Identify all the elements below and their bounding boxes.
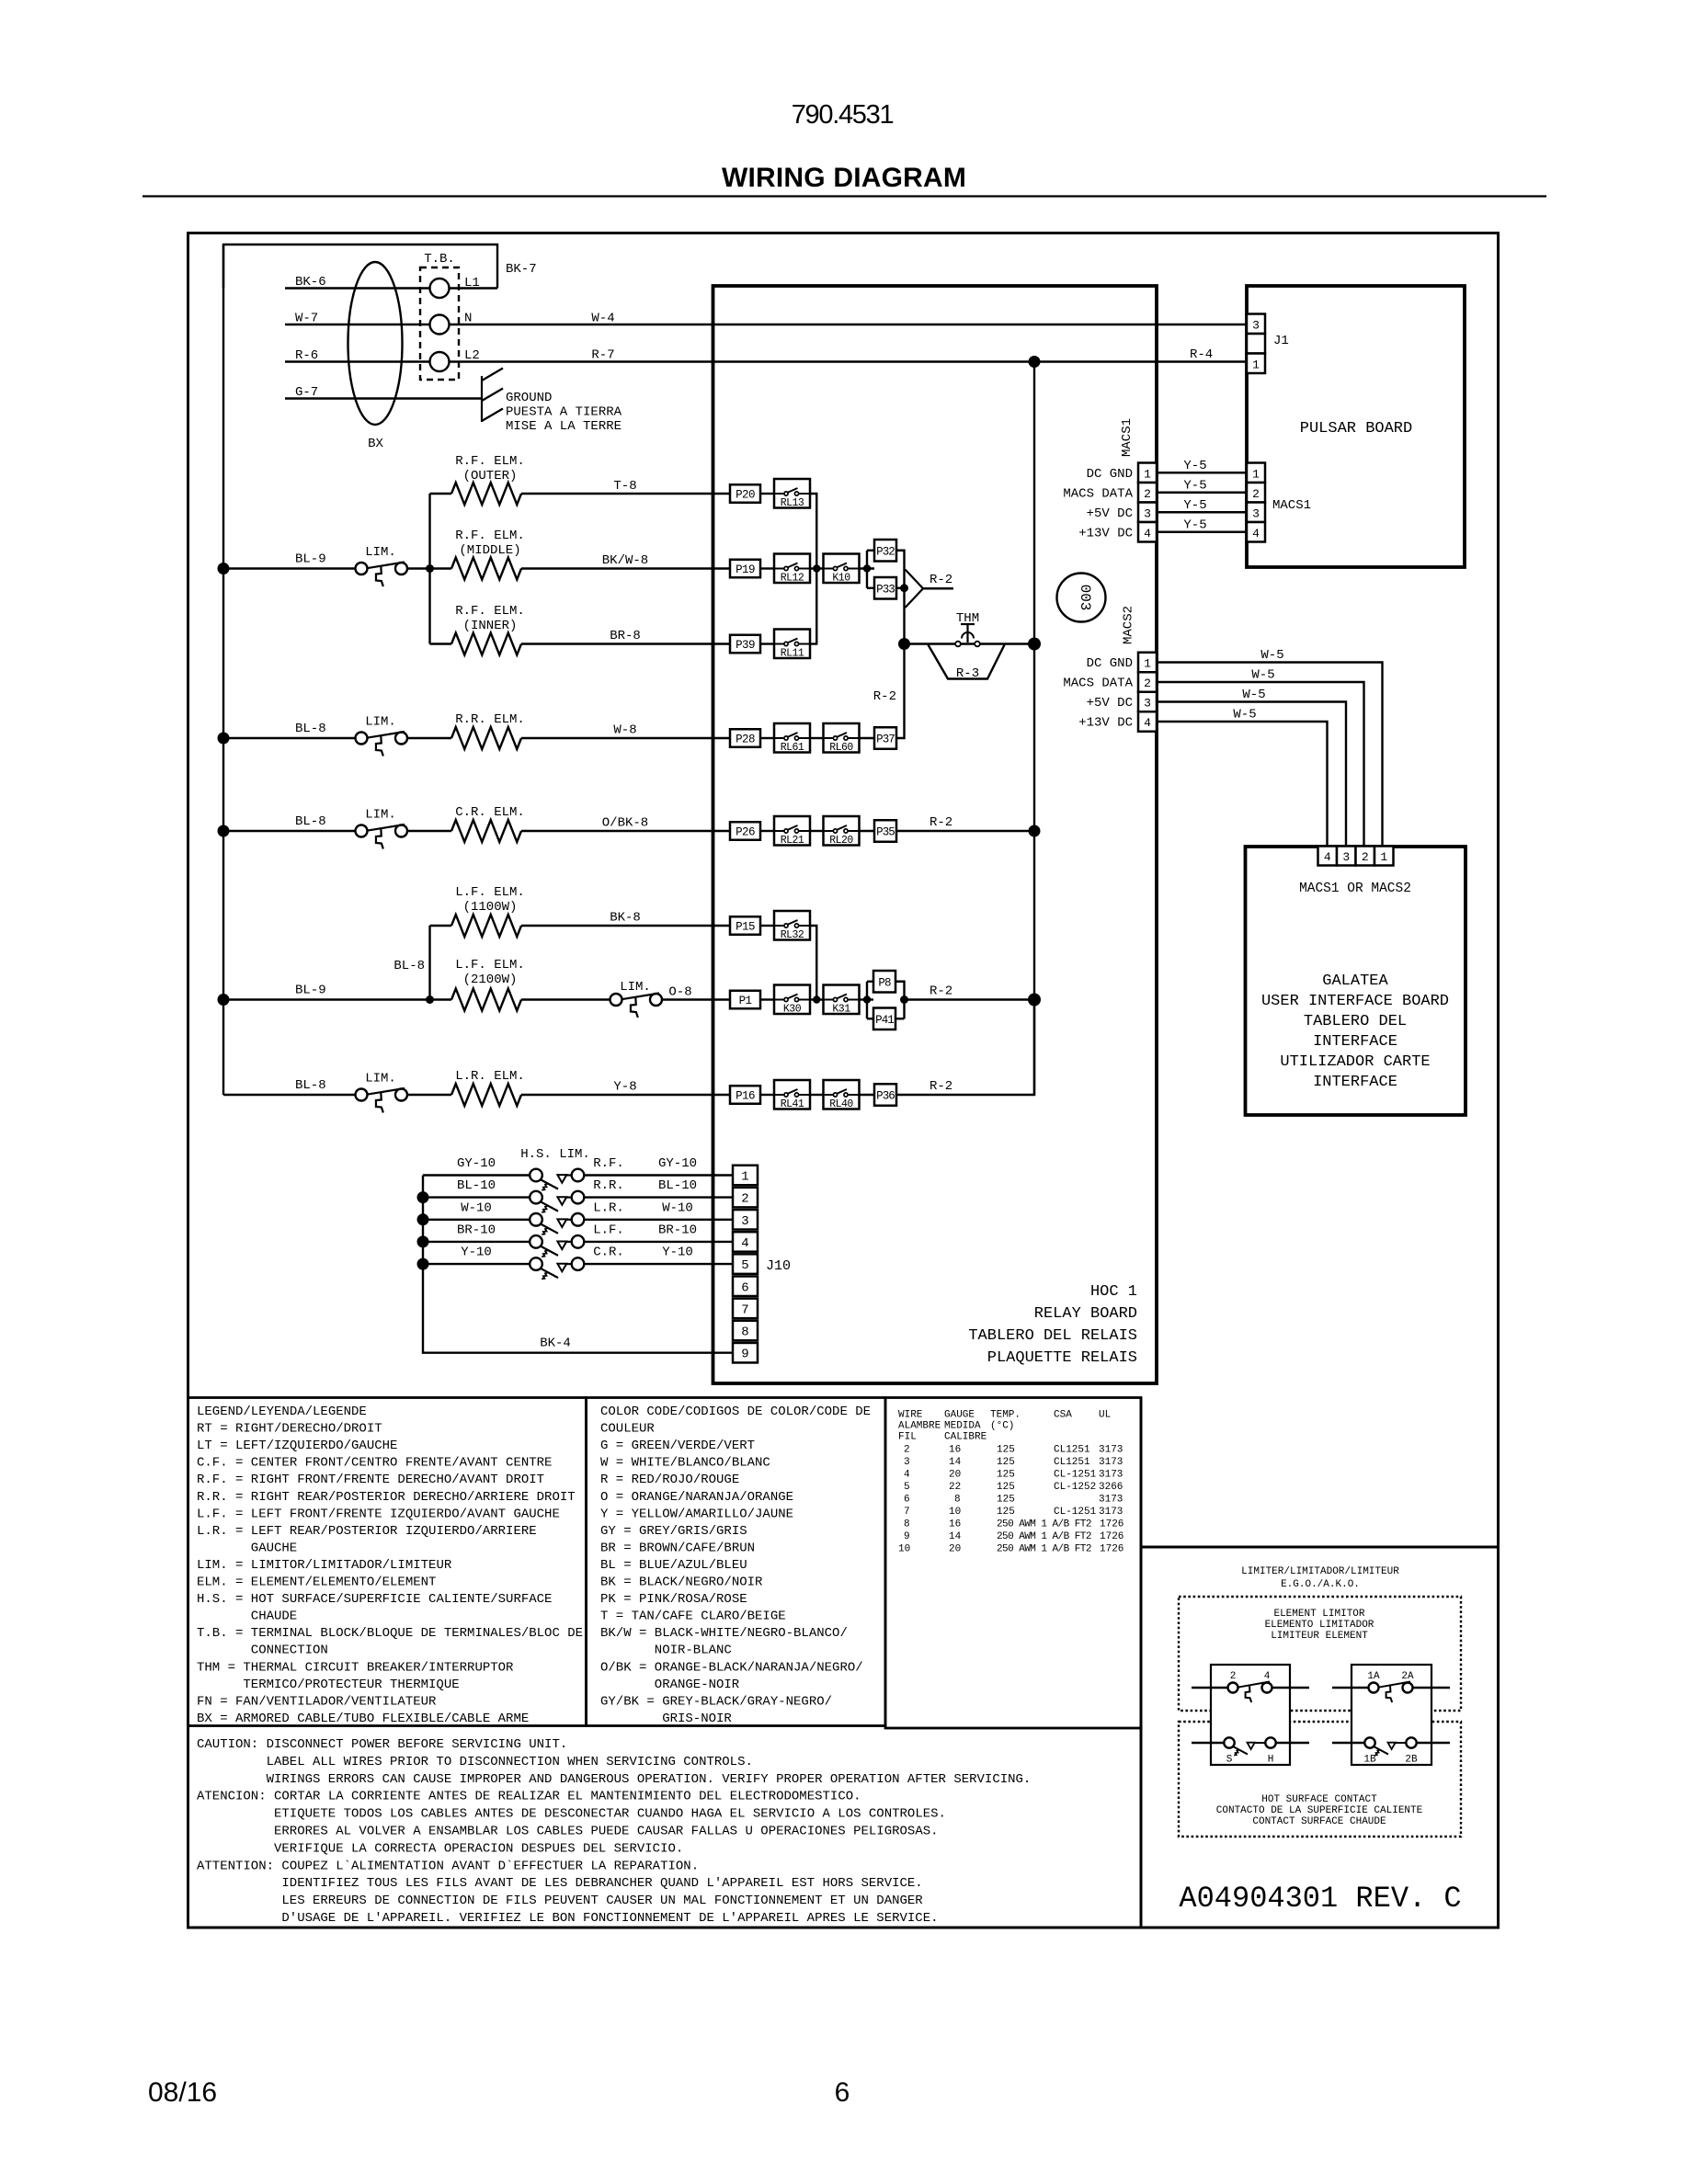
connector P32	[874, 540, 896, 562]
connector P16	[730, 1086, 760, 1104]
svg-text:1: 1	[1380, 850, 1387, 864]
svg-text:3173: 3173	[1099, 1470, 1123, 1481]
svg-text:UTILIZADOR CARTE: UTILIZADOR CARTE	[1280, 1053, 1430, 1071]
wire P19-RL12	[760, 567, 774, 569]
svg-text:LIMITEUR ELEMENT: LIMITEUR ELEMENT	[1271, 1631, 1368, 1642]
svg-text:R.R. = RIGHT REAR/POSTERIOR DE: R.R. = RIGHT REAR/POSTERIOR DERECHO/ARRI…	[197, 1490, 576, 1505]
wire LIM to resistor row4	[407, 737, 451, 739]
limiter switch row7	[610, 994, 622, 1006]
wire H.S. row 4 left	[423, 1241, 533, 1243]
connector P36	[874, 1084, 896, 1106]
wire BL-8 row4	[223, 737, 356, 739]
wire R-2 row8 to bus	[896, 1000, 1034, 1096]
svg-text:W-4: W-4	[591, 312, 614, 326]
junction dot P8/P41 join	[900, 995, 908, 1004]
wire P1-K30	[760, 998, 774, 1000]
svg-text:W-5: W-5	[1251, 668, 1274, 683]
svg-text:R.F. ELM.: R.F. ELM.	[455, 454, 525, 469]
svg-text:W-10: W-10	[461, 1200, 492, 1215]
svg-text:Y-10: Y-10	[461, 1246, 492, 1260]
terminal L2	[430, 352, 450, 371]
wire W-5 pin3	[1157, 702, 1346, 847]
relay board outline	[713, 286, 1158, 1383]
junction dot K30-K31	[813, 995, 820, 1003]
svg-text:TEMP.: TEMP.	[990, 1410, 1021, 1421]
junction dot H.S. row 5	[417, 1258, 429, 1270]
svg-text:3173: 3173	[1099, 1507, 1123, 1518]
wire P32 to vertical	[896, 551, 905, 644]
svg-text:BK/W-8: BK/W-8	[602, 553, 648, 568]
svg-text:125: 125	[997, 1445, 1015, 1456]
hot surface contact 1B-2B	[1332, 1742, 1365, 1744]
svg-text:CL1251: CL1251	[1054, 1445, 1090, 1456]
svg-text:1726: 1726	[1100, 1544, 1123, 1555]
svg-text:+13V DC: +13V DC	[1078, 716, 1133, 731]
wire RL21-RL20	[810, 830, 824, 832]
branch to P8/P41	[866, 982, 868, 1019]
svg-text:LEGEND/LEYENDA/LEGENDE: LEGEND/LEYENDA/LEGENDE	[197, 1405, 367, 1419]
wire R-2 row5	[896, 830, 1034, 832]
svg-text:CL-1251: CL-1251	[1054, 1507, 1097, 1518]
svg-text:T.B.: T.B.	[424, 252, 455, 267]
svg-text:125: 125	[997, 1495, 1015, 1506]
connector P20	[730, 484, 760, 503]
svg-text:BK-8: BK-8	[610, 911, 641, 926]
svg-text:TERMICO/PROTECTEUR THERMIQUE: TERMICO/PROTECTEUR THERMIQUE	[243, 1678, 459, 1692]
relay RL61	[774, 723, 810, 753]
svg-text:250 AWM 1 A/B FT2: 250 AWM 1 A/B FT2	[997, 1531, 1091, 1542]
svg-text:BX = ARMORED CABLE/TUBO FLEXIB: BX = ARMORED CABLE/TUBO FLEXIBLE/CABLE A…	[197, 1712, 529, 1726]
svg-text:LIM.: LIM.	[365, 808, 396, 823]
svg-text:1: 1	[741, 1170, 748, 1185]
wire O/BK-8	[521, 830, 730, 832]
connector P26	[730, 822, 760, 840]
resistor L.R. element	[451, 1084, 521, 1106]
wire L1 to BK-7 loop	[450, 287, 498, 289]
svg-text:GY/BK = GREY-BLACK/GRAY-NEGRO/: GY/BK = GREY-BLACK/GRAY-NEGRO/	[600, 1694, 832, 1709]
connector J1	[1247, 314, 1265, 335]
legend box	[188, 1398, 587, 1726]
element limitor contact 2-4	[1192, 1687, 1228, 1689]
svg-text:1726: 1726	[1100, 1519, 1123, 1530]
wire BL-9 row2	[223, 567, 356, 569]
svg-text:LABEL ALL WIRES PRIOR TO DISCO: LABEL ALL WIRES PRIOR TO DISCONNECTION W…	[267, 1755, 753, 1769]
svg-text:G = GREEN/VERDE/VERT: G = GREEN/VERDE/VERT	[600, 1439, 755, 1453]
H.S. left bus	[423, 1176, 733, 1353]
svg-text:IDENTIFIEZ TOUS LES FILS AVANT: IDENTIFIEZ TOUS LES FILS AVANT DE LES DE…	[281, 1876, 922, 1891]
svg-text:CONTACTO DE LA SUPERFICIE CALI: CONTACTO DE LA SUPERFICIE CALIENTE	[1216, 1805, 1423, 1816]
svg-text:+5V DC: +5V DC	[1087, 696, 1133, 711]
wire to LIM row7	[521, 998, 610, 1000]
svg-text:T-8: T-8	[613, 479, 636, 494]
svg-text:K31: K31	[832, 1004, 850, 1016]
H.S. limiter switch L.F.	[530, 1235, 542, 1248]
wire H.S. row 4 right	[585, 1241, 733, 1243]
svg-text:4: 4	[1324, 850, 1331, 864]
svg-text:RL60: RL60	[829, 742, 853, 754]
svg-text:4: 4	[1144, 716, 1151, 730]
svg-text:2: 2	[1144, 677, 1151, 690]
junction dot K10 branch	[863, 564, 871, 572]
svg-text:3: 3	[1252, 318, 1260, 332]
svg-text:20: 20	[949, 1470, 961, 1481]
svg-text:NOIR-BLANC: NOIR-BLANC	[655, 1644, 732, 1658]
main R-2 bus vertical	[1033, 362, 1035, 1096]
relay K31	[824, 985, 860, 1015]
galatea user interface board outline	[1246, 847, 1466, 1115]
svg-text:RL12: RL12	[781, 573, 804, 585]
svg-text:ELM. = ELEMENT/ELEMENTO/ELEMEN: ELM. = ELEMENT/ELEMENTO/ELEMENT	[197, 1575, 436, 1590]
junction dot THM right	[1028, 638, 1041, 651]
svg-text:LIMITER/LIMITADOR/LIMITEUR: LIMITER/LIMITADOR/LIMITEUR	[1241, 1566, 1399, 1577]
identifier circle 003	[1057, 574, 1106, 622]
svg-text:14: 14	[949, 1531, 962, 1542]
wire LIM to resistor row5	[407, 830, 451, 832]
wire Y-5 pin3	[1157, 511, 1247, 513]
svg-text:20: 20	[949, 1544, 961, 1555]
wire W-5 pin4	[1157, 722, 1328, 847]
svg-text:R-3: R-3	[956, 666, 979, 681]
outer border	[188, 233, 1499, 1928]
svg-text:W-5: W-5	[1260, 648, 1283, 663]
svg-text:GALATEA: GALATEA	[1322, 973, 1388, 990]
svg-text:ATENCION: CORTAR LA CORRIENTE: ATENCION: CORTAR LA CORRIENTE ANTES DE R…	[197, 1790, 861, 1804]
svg-text:(MIDDLE): (MIDDLE)	[459, 543, 520, 558]
wire BK-6 to terminal L1	[285, 287, 430, 289]
svg-text:TABLERO DEL RELAIS: TABLERO DEL RELAIS	[968, 1327, 1137, 1345]
limiter switch row8	[356, 1089, 368, 1101]
svg-text:Y-5: Y-5	[1183, 459, 1206, 473]
wire gauge box	[885, 1398, 1141, 1729]
wire Y-5 pin1	[1157, 472, 1247, 473]
svg-text:O/BK-8: O/BK-8	[602, 816, 648, 831]
svg-text:A04904301 REV. C: A04904301 REV. C	[1179, 1882, 1461, 1916]
svg-text:RELAY BOARD: RELAY BOARD	[1034, 1305, 1137, 1323]
wire P26-RL21	[760, 830, 774, 832]
svg-text:L.F. ELM.: L.F. ELM.	[455, 958, 525, 973]
svg-text:W = WHITE/BLANCO/BLANC: W = WHITE/BLANCO/BLANC	[600, 1456, 770, 1471]
svg-text:P26: P26	[736, 826, 755, 839]
svg-text:250 AWM 1 A/B FT2: 250 AWM 1 A/B FT2	[997, 1544, 1091, 1555]
connector P1	[730, 991, 760, 1009]
svg-text:7: 7	[904, 1507, 910, 1518]
svg-text:16: 16	[949, 1519, 961, 1530]
svg-text:L.F. ELM.: L.F. ELM.	[455, 885, 525, 900]
junction dot THM left	[898, 638, 910, 650]
connector P35	[874, 820, 896, 842]
wire BL-9 row7	[223, 998, 430, 1000]
svg-text:MACS1: MACS1	[1272, 498, 1311, 513]
wire W-8	[521, 737, 730, 739]
limiter switch row5	[356, 825, 368, 837]
svg-text:P8: P8	[878, 976, 891, 989]
wire P28-RL61	[760, 737, 774, 739]
wire H.S. row 1 right	[585, 1174, 733, 1176]
svg-text:3173: 3173	[1099, 1495, 1123, 1506]
color code box	[587, 1398, 886, 1726]
wire P37 up to THM	[896, 644, 905, 739]
wire LIM to node row2	[407, 567, 430, 569]
H.S. limiter switch R.R.	[530, 1191, 542, 1204]
junction dot bus row4	[218, 733, 230, 745]
svg-text:L.R. = LEFT REAR/POSTERIOR IZQ: L.R. = LEFT REAR/POSTERIOR IZQUIERDO/ARR…	[197, 1524, 537, 1539]
wire THM row	[905, 643, 1035, 644]
svg-text:BL-9: BL-9	[295, 984, 326, 998]
svg-text:C.F. = CENTER FRONT/CENTRO FRE: C.F. = CENTER FRONT/CENTRO FRENTE/AVANT …	[197, 1456, 552, 1471]
svg-text:3: 3	[1252, 506, 1260, 520]
junction dot LF node	[426, 995, 434, 1004]
svg-text:Y-8: Y-8	[613, 1080, 636, 1095]
svg-text:BR = BROWN/CAFE/BRUN: BR = BROWN/CAFE/BRUN	[600, 1541, 755, 1555]
svg-text:790.4531: 790.4531	[792, 100, 894, 130]
svg-text:125: 125	[997, 1457, 1015, 1468]
svg-text:MACS DATA: MACS DATA	[1063, 486, 1133, 501]
svg-text:BL = BLUE/AZUL/BLEU: BL = BLUE/AZUL/BLEU	[600, 1558, 747, 1573]
svg-text:CL-1251: CL-1251	[1054, 1470, 1097, 1481]
svg-text:ORANGE-NOIR: ORANGE-NOIR	[655, 1678, 740, 1692]
wire Y-8	[521, 1094, 730, 1096]
wire R-2 row7	[905, 998, 1035, 1000]
svg-text:GY = GREY/GRIS/GRIS: GY = GREY/GRIS/GRIS	[600, 1524, 747, 1539]
svg-text:Y-5: Y-5	[1183, 498, 1206, 513]
svg-text:FIL: FIL	[898, 1432, 917, 1443]
svg-text:1726: 1726	[1100, 1531, 1123, 1542]
resistor C.R. element	[451, 820, 521, 842]
svg-text:K10: K10	[832, 573, 850, 585]
svg-text:H: H	[1268, 1755, 1274, 1766]
svg-text:LIM.: LIM.	[365, 545, 396, 560]
terminal block T.B. dashed box	[420, 267, 459, 380]
svg-text:DC GND: DC GND	[1087, 656, 1133, 671]
wire RL20-P35	[859, 830, 874, 832]
H.S. limiter switch L.R.	[530, 1213, 542, 1226]
svg-text:(INNER): (INNER)	[463, 619, 518, 633]
wire H.S. row 5 right	[585, 1263, 733, 1265]
svg-text:BL-8: BL-8	[393, 959, 425, 973]
svg-text:1: 1	[1252, 358, 1260, 371]
wire BL-8 row8	[223, 1094, 356, 1096]
svg-text:CONTACT SURFACE CHAUDE: CONTACT SURFACE CHAUDE	[1252, 1816, 1386, 1827]
connector P39	[730, 635, 760, 654]
svg-text:(1100W): (1100W)	[463, 900, 518, 915]
svg-text:R.F. ELM.: R.F. ELM.	[455, 604, 525, 619]
svg-text:RL11: RL11	[781, 648, 804, 660]
svg-text:10: 10	[949, 1507, 961, 1518]
svg-text:CHAUDE: CHAUDE	[251, 1610, 297, 1624]
wire RL41-RL40	[810, 1094, 824, 1096]
svg-text:9: 9	[904, 1531, 910, 1542]
svg-text:DC GND: DC GND	[1087, 467, 1133, 482]
svg-text:4: 4	[1144, 527, 1151, 540]
wire R-2 row2	[923, 587, 953, 589]
wire W-5 pin1	[1157, 663, 1383, 847]
svg-text:P1: P1	[739, 995, 752, 1007]
svg-text:RL41: RL41	[781, 1098, 804, 1110]
svg-text:RL13: RL13	[781, 497, 804, 509]
svg-text:250 AWM 1 A/B FT2: 250 AWM 1 A/B FT2	[997, 1519, 1091, 1530]
title rule	[143, 195, 1546, 197]
svg-text:R.R.: R.R.	[593, 1178, 624, 1193]
svg-text:BL-8: BL-8	[295, 814, 326, 829]
H.S. limiter switch R.F.	[530, 1169, 542, 1182]
node vertical LF elements	[428, 926, 430, 1000]
svg-text:4: 4	[1264, 1671, 1271, 1682]
svg-text:+13V DC: +13V DC	[1078, 526, 1133, 540]
svg-text:BR-8: BR-8	[610, 629, 641, 643]
svg-text:GY-10: GY-10	[457, 1156, 496, 1171]
svg-text:3: 3	[904, 1457, 910, 1468]
svg-text:(°C): (°C)	[990, 1421, 1014, 1432]
svg-text:C.R.: C.R.	[593, 1246, 624, 1260]
wire H.S. row 1 left	[423, 1174, 533, 1176]
svg-text:P19: P19	[736, 563, 755, 576]
svg-text:3173: 3173	[1099, 1457, 1123, 1468]
svg-text:W-7: W-7	[295, 312, 318, 326]
svg-text:BK-6: BK-6	[295, 275, 326, 290]
limiter switch row4	[356, 733, 368, 745]
svg-text:BL-8: BL-8	[295, 722, 326, 736]
svg-text:R.F. = RIGHT FRONT/FRENTE DERE: R.F. = RIGHT FRONT/FRENTE DERECHO/AVANT …	[197, 1473, 544, 1487]
svg-text:2: 2	[1144, 487, 1151, 501]
svg-text:3: 3	[741, 1214, 748, 1229]
wire K30-K31	[810, 998, 824, 1000]
svg-text:BL-8: BL-8	[295, 1078, 326, 1093]
svg-text:LIM.: LIM.	[620, 980, 651, 995]
svg-text:L.F.: L.F.	[593, 1223, 624, 1237]
resistor L.F. 2100W element	[430, 998, 452, 1000]
connector MACS2 relay side	[1138, 653, 1157, 673]
wire H.S. row 3 left	[423, 1219, 533, 1221]
svg-text:Y-5: Y-5	[1183, 478, 1206, 493]
svg-text:Y-10: Y-10	[662, 1246, 693, 1260]
svg-text:R-2: R-2	[930, 815, 952, 830]
svg-text:W-5: W-5	[1242, 688, 1265, 702]
svg-text:ERRORES AL VOLVER A ENSAMBLAR: ERRORES AL VOLVER A ENSAMBLAR LOS CABLES…	[274, 1825, 939, 1839]
svg-text:WIRINGS ERRORS CAN CAUSE IMPRO: WIRINGS ERRORS CAN CAUSE IMPROPER AND DA…	[267, 1772, 1032, 1787]
limiter switch row2	[356, 563, 368, 574]
connector P37	[874, 727, 896, 749]
svg-text:COLOR CODE/CODIGOS DE COLOR/CO: COLOR CODE/CODIGOS DE COLOR/CODE DE	[600, 1405, 871, 1419]
svg-text:8: 8	[904, 1519, 910, 1530]
wire RL13 down to K10 node	[810, 494, 816, 569]
svg-text:6: 6	[904, 1495, 910, 1506]
hot surface contact S-H	[1192, 1742, 1225, 1744]
svg-text:P16: P16	[736, 1090, 755, 1103]
svg-text:GY-10: GY-10	[658, 1156, 697, 1171]
junction dot R-7 bus	[1029, 356, 1041, 368]
svg-text:BK = BLACK/NEGRO/NOIR: BK = BLACK/NEGRO/NOIR	[600, 1575, 763, 1590]
relay RL12	[774, 554, 810, 584]
svg-text:WIRE: WIRE	[898, 1410, 923, 1421]
svg-text:16: 16	[949, 1445, 961, 1456]
relay K10	[824, 554, 860, 584]
svg-text:LIM.: LIM.	[365, 715, 396, 730]
svg-text:D'USAGE DE L'APPAREIL. VERIFIE: D'USAGE DE L'APPAREIL. VERIFIEZ LE BON F…	[281, 1911, 938, 1926]
wire BR-8	[521, 643, 730, 644]
relay RL32	[774, 911, 810, 940]
svg-text:CL-1252: CL-1252	[1054, 1482, 1096, 1493]
svg-text:Y-5: Y-5	[1183, 518, 1206, 532]
svg-text:4: 4	[1252, 527, 1260, 540]
svg-text:R-2: R-2	[930, 1079, 952, 1094]
svg-text:P35: P35	[876, 826, 895, 839]
wire Y-5 pin4	[1157, 531, 1247, 533]
wire P33 to vertical	[896, 587, 905, 589]
connector P15	[730, 916, 760, 935]
wire R-6 / R-7 / R-4 line2	[285, 360, 1247, 362]
svg-text:P32: P32	[876, 545, 895, 558]
svg-text:22: 22	[949, 1482, 961, 1493]
svg-text:PLAQUETTE RELAIS: PLAQUETTE RELAIS	[987, 1349, 1137, 1367]
svg-text:R.F. ELM.: R.F. ELM.	[455, 529, 525, 543]
junction dot H.S. row 3	[417, 1213, 429, 1225]
svg-text:LIM.: LIM.	[365, 1072, 396, 1086]
relay RL40	[824, 1080, 860, 1109]
svg-text:O/BK = ORANGE-BLACK/NARANJA/NE: O/BK = ORANGE-BLACK/NARANJA/NEGRO/	[600, 1660, 863, 1675]
svg-text:L2: L2	[464, 348, 480, 363]
resistor R.F. middle element	[430, 567, 452, 569]
resistor R.F. outer element	[430, 493, 452, 495]
svg-text:125: 125	[997, 1507, 1015, 1518]
svg-text:R-2: R-2	[930, 573, 952, 587]
svg-text:2A: 2A	[1401, 1671, 1414, 1682]
connector P28	[730, 729, 760, 747]
thermal breaker THM symbol	[961, 623, 975, 625]
svg-text:P33: P33	[876, 583, 895, 596]
svg-text:R-7: R-7	[591, 348, 614, 363]
connector MACS1 relay side	[1138, 463, 1157, 483]
svg-text:W-10: W-10	[662, 1200, 693, 1215]
svg-text:FN = FAN/VENTILADOR/VENTILATEU: FN = FAN/VENTILADOR/VENTILATEUR	[197, 1694, 437, 1709]
svg-text:2: 2	[741, 1192, 748, 1207]
element limitor contact 1A-2A	[1332, 1687, 1369, 1689]
svg-text:CALIBRE: CALIBRE	[944, 1432, 987, 1443]
svg-text:6: 6	[835, 2077, 850, 2108]
connector P8	[873, 971, 895, 993]
ground symbol	[481, 376, 483, 422]
wire W-7 / W-4 neutral	[285, 324, 1247, 325]
svg-text:BK-4: BK-4	[540, 1337, 571, 1351]
svg-text:4: 4	[741, 1236, 748, 1251]
connector P41	[873, 1008, 895, 1030]
svg-text:P37: P37	[876, 734, 895, 746]
svg-text:R.R. ELM.: R.R. ELM.	[455, 712, 525, 727]
svg-text:RL40: RL40	[829, 1098, 853, 1110]
wire H.S. row 5 left	[423, 1263, 533, 1265]
svg-text:MISE A LA TERRE: MISE A LA TERRE	[506, 419, 622, 434]
connector J10	[733, 1166, 758, 1186]
svg-text:O-8: O-8	[668, 985, 691, 1000]
svg-text:R-6: R-6	[295, 348, 318, 363]
svg-text:LIM. = LIMITOR/LIMITADOR/LIMIT: LIM. = LIMITOR/LIMITADOR/LIMITEUR	[197, 1558, 452, 1573]
svg-text:L.F. = LEFT FRONT/FRENTE IZQUI: L.F. = LEFT FRONT/FRENTE IZQUIERDO/AVANT…	[197, 1507, 560, 1521]
svg-text:MACS DATA: MACS DATA	[1063, 677, 1133, 691]
terminal L1	[430, 279, 450, 298]
svg-text:3: 3	[1342, 850, 1350, 864]
svg-text:RL61: RL61	[781, 742, 804, 754]
svg-text:WIRING DIAGRAM: WIRING DIAGRAM	[722, 163, 966, 193]
svg-text:UL: UL	[1099, 1410, 1111, 1421]
svg-text:8: 8	[954, 1495, 961, 1506]
relay K30	[774, 985, 810, 1015]
svg-text:N: N	[464, 312, 472, 326]
svg-text:INTERFACE: INTERFACE	[1313, 1074, 1397, 1091]
svg-text:9: 9	[741, 1348, 748, 1362]
limiter switch box right	[1352, 1665, 1431, 1765]
svg-text:10: 10	[898, 1544, 910, 1555]
connector MACS1-or-MACS2 galatea	[1318, 847, 1338, 866]
relay RL11	[774, 630, 810, 659]
